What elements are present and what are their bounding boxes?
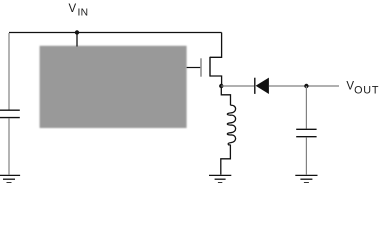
wire: source lead down to switch node <box>210 76 222 86</box>
node VIN junction dot <box>75 30 79 34</box>
capacitor C1 bottom plate <box>0 117 20 119</box>
node VOUT junction dot <box>304 84 308 88</box>
transistor Q1 channel bar <box>209 57 211 77</box>
wire: switch node to diode cathode <box>221 85 254 87</box>
wire: VIN dot down to IC block <box>76 33 78 47</box>
node switch-node junction dot <box>219 84 223 88</box>
inductor L1 coil <box>227 105 235 145</box>
capacitor C2 top plate <box>296 128 316 130</box>
wire: drain lead up to VIN rail <box>210 33 222 58</box>
wire: left vertical from rail to input cap <box>8 33 10 110</box>
inductor L1 bottom lead to ground <box>221 145 231 175</box>
wire: diode anode to VOUT <box>269 85 339 87</box>
capacitor C2 bottom plate <box>296 136 316 138</box>
ground (input cap) <box>0 175 20 182</box>
wire: output cap to ground <box>305 137 307 174</box>
wire: VIN top rail <box>9 32 222 34</box>
capacitor C1 top plate <box>0 109 20 111</box>
transistor Q1 gate lead wire <box>187 67 201 69</box>
svg-text:VIN: VIN <box>69 3 89 19</box>
diode D1 triangle <box>256 78 269 94</box>
inductor L1 top lead from switch node <box>221 87 230 105</box>
transistor Q1 gate bar <box>200 58 202 76</box>
wire: VOUT node down to output cap <box>305 86 307 129</box>
ground (inductor) <box>209 175 231 182</box>
diode D1 cathode bar <box>254 78 256 94</box>
wire: input cap to ground <box>8 118 10 174</box>
svg-text:VOUT: VOUT <box>346 80 379 96</box>
ground (output cap) <box>295 175 317 182</box>
regulator IC block U1 <box>40 46 187 128</box>
